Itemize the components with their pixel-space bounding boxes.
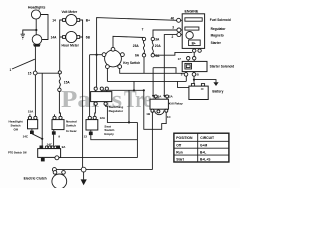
kill relay arch <box>155 111 164 115</box>
svg-text:Headlights: Headlights <box>28 6 45 10</box>
junction dot <box>128 121 130 123</box>
regulator bar <box>185 27 199 30</box>
engine pin 3 <box>177 28 181 32</box>
wire key LL down <box>106 69 108 82</box>
svg-text:Kill Relay: Kill Relay <box>169 102 183 106</box>
wire B to battery <box>193 76 195 83</box>
kill relay bottom pins <box>151 109 154 112</box>
fuse 15A bottom pin <box>58 88 61 91</box>
svg-text:15: 15 <box>28 72 32 76</box>
wire diagonal 1 <box>12 59 35 69</box>
junction dot <box>193 79 195 81</box>
svg-text:Battery: Battery <box>212 89 223 93</box>
svg-text:13: 13 <box>84 135 88 139</box>
wire 129 vertical <box>128 90 130 122</box>
engine pin 2 <box>177 33 181 37</box>
svg-text:25A: 25A <box>133 44 140 48</box>
wire headlights vertical <box>35 19 37 35</box>
wire 14C diagonal <box>32 134 42 139</box>
wire pin2 down to kill relay <box>164 35 177 95</box>
seat switch bottom pin <box>90 130 92 132</box>
wire long horizontal 81 <box>107 76 186 81</box>
wire meters right bracket <box>80 20 83 168</box>
magneto circle <box>186 32 193 39</box>
ground arrow <box>81 179 87 185</box>
headlight lamp 1 <box>31 10 40 19</box>
svg-text:Starter Solenoid: Starter Solenoid <box>210 65 235 69</box>
svg-text:14C: 14C <box>23 134 29 138</box>
wire fuse to neutral switch <box>59 92 60 117</box>
svg-text:Start: Start <box>176 157 184 161</box>
headlight switch pins <box>28 116 31 119</box>
svg-text:15A: 15A <box>28 110 34 114</box>
wire seat switch down right <box>91 135 138 140</box>
junction dot <box>35 29 37 31</box>
wire bottom bus 2 <box>54 169 153 171</box>
svg-text:6B: 6B <box>86 35 91 39</box>
svg-text:Magneto: Magneto <box>211 33 224 37</box>
wire headlight bypass <box>41 15 48 40</box>
junction dot <box>133 89 135 91</box>
svg-text:Fuel Solenoid: Fuel Solenoid <box>210 18 231 22</box>
headlight lamp 2 <box>32 35 42 45</box>
fuel solenoid bar <box>185 18 202 21</box>
key switch pin LL <box>106 65 110 69</box>
ground symbol <box>21 34 25 39</box>
junction dot <box>41 138 43 140</box>
engine B+ box <box>189 40 201 46</box>
engine bottom pins <box>194 47 199 50</box>
svg-text:7: 7 <box>142 27 144 31</box>
neutral switch bottom pin <box>53 130 55 132</box>
PTO switch box <box>38 149 61 158</box>
svg-text:2: 2 <box>172 35 174 39</box>
svg-text:40: 40 <box>171 17 175 21</box>
engine box <box>182 14 204 49</box>
key switch pin top <box>111 47 115 51</box>
svg-text:CIRCUIT: CIRCUIT <box>200 136 215 140</box>
svg-text:3: 3 <box>172 25 174 29</box>
wire to seat switch <box>89 55 91 117</box>
PTO top pins <box>40 146 43 149</box>
wire lamp down to node 15 <box>34 47 36 72</box>
pin on bus2 <box>52 168 56 172</box>
key switch pin UL <box>102 53 106 57</box>
wire from pin3 of engine <box>153 30 177 37</box>
kill relay box <box>150 99 168 109</box>
junction dot <box>96 54 98 56</box>
wire node to ground arrow <box>83 172 85 179</box>
wire battery left stub <box>178 81 190 87</box>
PTO bottom right pin <box>55 156 59 160</box>
lamp base <box>33 44 41 46</box>
svg-text:B+: B+ <box>192 42 196 46</box>
headlight switch stub <box>29 114 31 116</box>
table row lines <box>174 141 229 155</box>
svg-text:Volt Meter: Volt Meter <box>62 10 78 14</box>
svg-text:ENGINE: ENGINE <box>185 9 199 13</box>
engine pin 40 <box>177 18 181 22</box>
key switch body <box>105 50 122 67</box>
regulator top pins <box>96 90 107 91</box>
ground arrow <box>213 82 218 86</box>
table column divider <box>197 133 199 162</box>
starter solenoid box <box>182 61 207 71</box>
svg-text:G+M: G+M <box>200 144 207 148</box>
fuse col left bottom pin <box>142 54 145 57</box>
regulator bottom pins <box>96 101 106 104</box>
fuse 20A element <box>152 41 153 54</box>
svg-text:15A: 15A <box>64 81 71 85</box>
switching regulator box <box>91 92 112 102</box>
PTO bottom pins <box>42 156 44 159</box>
volt meter <box>66 14 77 25</box>
wire 3A feed down to kill relay <box>152 68 154 95</box>
wire node15 to fuse <box>37 72 58 74</box>
key switch pin LR <box>118 65 122 69</box>
svg-text:Starter: Starter <box>211 41 222 45</box>
kill relay pins top <box>156 98 167 99</box>
svg-text:B+: B+ <box>86 18 90 22</box>
wire regulator to seat switch <box>94 105 97 116</box>
wire 1C return path <box>144 90 166 129</box>
seat switch box <box>86 120 98 130</box>
svg-text:Run: Run <box>176 150 182 154</box>
battery box <box>189 86 208 99</box>
svg-text:6A: 6A <box>155 54 160 58</box>
svg-text:6A: 6A <box>135 54 140 58</box>
svg-text:Key Switch: Key Switch <box>123 61 140 65</box>
wire 1B down to clutch bus <box>151 112 153 169</box>
wire 6A right elbow <box>155 52 193 55</box>
wire 67.7 horizontal <box>153 68 176 74</box>
fuse col right bottom pin <box>151 54 154 57</box>
wire to ground arrow <box>194 80 216 83</box>
wire regulator bypass vertical <box>133 81 135 90</box>
svg-text:Regulator: Regulator <box>109 109 124 113</box>
wire into headlight switch <box>34 75 36 116</box>
key switch pin UR <box>121 53 125 57</box>
wire meters left bracket <box>60 20 63 71</box>
neutral switch box <box>52 120 64 130</box>
battery minus mark <box>201 88 204 90</box>
svg-text:B+L: B+L <box>200 151 206 155</box>
neutral switch pins <box>54 114 56 116</box>
wire engine to solenoid <box>193 52 195 56</box>
svg-text:17: 17 <box>178 57 182 61</box>
fuse 25A element <box>143 41 144 54</box>
wire bus to key switch <box>90 54 103 56</box>
electric clutch body <box>52 174 67 189</box>
node on bus2 <box>81 167 86 172</box>
svg-text:14A: 14A <box>51 35 58 39</box>
fuse col left top pin <box>142 37 145 40</box>
node 15 <box>33 71 37 75</box>
wire key LR down right to solenoid 5 <box>120 69 185 74</box>
svg-text:20A: 20A <box>155 44 162 48</box>
wire horizontal 90 <box>102 89 144 91</box>
wire bus 14 vertical <box>41 73 43 145</box>
wire to ground <box>23 30 37 34</box>
fuse col right top pin <box>151 37 154 40</box>
wire bus to regulator <box>96 55 98 87</box>
legend table box <box>174 133 229 162</box>
solenoid bottom pins <box>186 72 194 73</box>
wire bottom bus 1 <box>59 157 137 159</box>
svg-text:14: 14 <box>52 18 56 22</box>
svg-text:B+L+S: B+L+S <box>200 158 211 162</box>
svg-text:POSITION: POSITION <box>176 136 193 140</box>
wire fuse6A left down <box>143 57 145 73</box>
headlight switch box <box>28 120 38 129</box>
headlight switch bottom pin <box>31 129 33 131</box>
junction dot <box>143 89 145 91</box>
svg-text:PTO Switch Off: PTO Switch Off <box>8 150 27 154</box>
svg-text:Electric Clutch: Electric Clutch <box>24 176 47 180</box>
svg-text:In Gear: In Gear <box>66 129 77 133</box>
svg-text:12A: 12A <box>100 116 106 120</box>
wire regulator right down elbow <box>106 105 138 122</box>
wire top bus 40 <box>97 18 177 55</box>
solenoid inner square <box>185 63 192 69</box>
svg-text:Switch: Switch <box>66 124 76 128</box>
electric clutch pins <box>53 171 57 175</box>
svg-text:3A: 3A <box>155 37 160 41</box>
svg-text:Empty: Empty <box>104 132 114 136</box>
svg-text:Regulator: Regulator <box>211 27 227 31</box>
wire 9 down to PTO <box>53 134 55 145</box>
wire key top up and right to fuse 7 <box>113 36 144 47</box>
hour meter <box>66 31 77 42</box>
svg-text:Hour Meter: Hour Meter <box>62 43 80 47</box>
fuse 15A top pin <box>58 71 61 74</box>
wire 137 down to bottom bus <box>136 122 138 157</box>
fuse 15A element <box>59 74 60 88</box>
battery tabs <box>191 84 194 87</box>
seat switch pins <box>88 116 91 119</box>
svg-text:1: 1 <box>10 68 12 72</box>
starter solenoid top pins <box>187 57 190 60</box>
